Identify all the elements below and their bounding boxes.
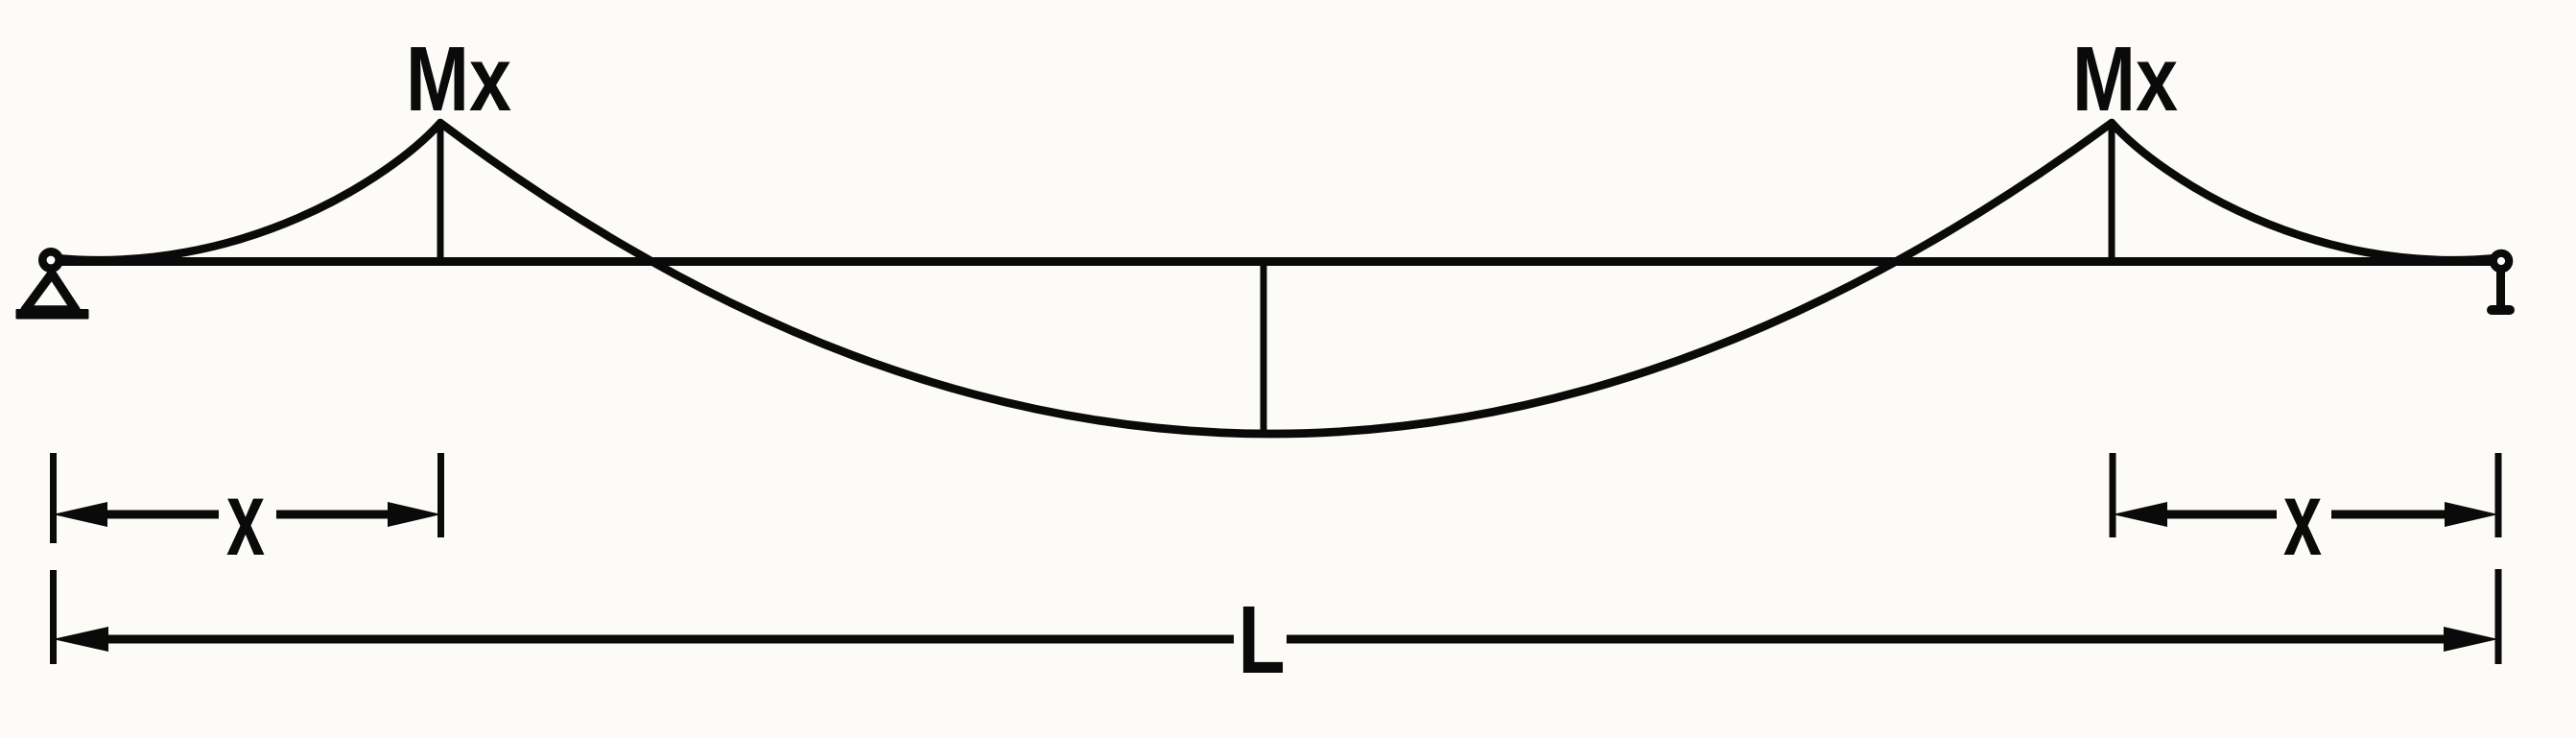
svg-text:L: L — [1239, 586, 1286, 694]
L-dimension: right line segment — [1287, 635, 2446, 644]
left x-dimension: right extension tick — [437, 453, 444, 537]
beam line — [59, 257, 2494, 266]
svg-text:Mx: Mx — [2072, 28, 2178, 131]
left x-dimension: left extension tick — [50, 453, 57, 543]
right x-dimension: left extension tick — [2110, 453, 2116, 537]
left x-dimension: left arrowhead — [53, 502, 107, 527]
svg-text:Mx: Mx — [406, 28, 511, 131]
left pin support base bar — [16, 309, 89, 320]
right roller support stem — [2496, 271, 2505, 309]
left x-dimension: right line segment — [276, 511, 390, 519]
svg-text:x: x — [226, 460, 265, 578]
L-dimension: right arrowhead — [2444, 627, 2498, 652]
left x-dimension: left line segment — [106, 511, 219, 519]
left peak ordinate line — [437, 125, 444, 261]
left pin support triangle — [25, 274, 76, 310]
L-dimension: left extension tick — [50, 570, 57, 664]
right roller support foot — [2487, 305, 2515, 315]
right x-dimension: left line segment — [2165, 511, 2277, 519]
moment curve sag (apex to apex) — [440, 123, 2112, 434]
svg-text:x: x — [2283, 460, 2322, 578]
left x-dimension: right arrowhead — [388, 502, 441, 527]
L-dimension: right extension tick — [2495, 569, 2502, 664]
midspan ordinate line — [1261, 261, 1267, 434]
L-dimension: left arrowhead — [53, 627, 108, 652]
moment curve left branch — [56, 123, 440, 260]
right x-dimension: right arrowhead — [2445, 502, 2498, 527]
right peak ordinate line — [2109, 125, 2115, 261]
right x-dimension: left arrowhead — [2113, 502, 2167, 527]
left pin support circle — [42, 251, 59, 268]
right x-dimension: right line segment — [2331, 511, 2446, 519]
moment curve right branch — [2112, 123, 2496, 260]
L-dimension: left line segment — [106, 635, 1234, 644]
right roller support circle — [2493, 253, 2509, 269]
right x-dimension: right extension tick — [2495, 453, 2502, 537]
